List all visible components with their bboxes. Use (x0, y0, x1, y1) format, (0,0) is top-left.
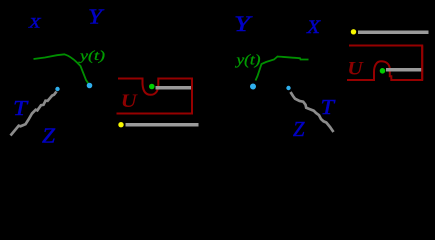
node: cyan dot at end of green path (250, 84, 256, 90)
right edge of U redrawn over bar (421, 46, 423, 81)
gray bar through region U (156, 86, 192, 90)
svg-text:U: U (121, 91, 138, 112)
svg-text:y(t): y(t) (77, 49, 105, 64)
region U outline (dark red, open on left): top edge, notch pocket, right edge, bottom edge (117, 79, 193, 114)
wire: gray rough zigzag path Z left panel (11, 92, 57, 136)
svg-text:T: T (13, 96, 29, 120)
node: yellow dot at left end of bar (118, 122, 123, 127)
svg-text:Z: Z (293, 117, 305, 141)
gray bar above U (right panel) (358, 31, 429, 35)
svg-text:y(t): y(t) (234, 53, 260, 69)
svg-text:X: X (28, 16, 42, 32)
node: green dot in notch (149, 84, 155, 90)
node: cyan dot at end of green path (87, 83, 93, 89)
wire: green path y(t) left panel (34, 54, 90, 84)
node: green dot in arch notch (380, 68, 386, 74)
wire: gray rough zigzag path Z right panel (291, 92, 334, 132)
gray bar below U (left panel) (126, 123, 199, 127)
svg-text:Z: Z (42, 124, 56, 148)
wire: green path y(t) right panel (256, 57, 309, 81)
svg-text:X: X (306, 18, 321, 38)
node: yellow dot at left end of top bar (351, 29, 356, 34)
svg-text:U: U (347, 60, 364, 80)
region U outline (dark red, open on left): top edge, right edge, bottom edge with arch notch (347, 46, 422, 81)
right edge of U redrawn over bar (191, 79, 193, 114)
svg-text:T: T (321, 95, 337, 119)
gray bar through region U (right panel) (386, 68, 422, 72)
node: cyan dot at top of zigzag (55, 87, 59, 91)
node: cyan dot at top of zigzag (right) (286, 86, 290, 90)
